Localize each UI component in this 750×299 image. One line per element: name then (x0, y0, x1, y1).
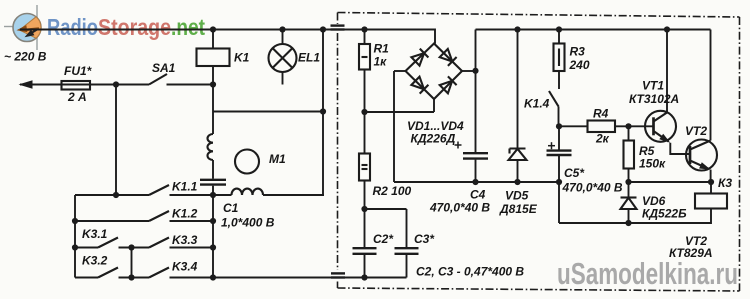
label R2 100 (373, 184, 412, 198)
svg-text:R1: R1 (374, 42, 390, 56)
transistor VT1 (645, 30, 690, 155)
inductor motor winding left (207, 134, 213, 160)
wire left column (74, 195, 76, 278)
wire node down to motor block (212, 85, 214, 112)
capacitor C2 (353, 209, 377, 278)
wire C1 to row (212, 186, 214, 195)
svg-text:K3.1: K3.1 (82, 227, 108, 241)
diode bridge VD1...VD4 (406, 44, 463, 100)
label C2* (373, 232, 394, 246)
svg-text:Radio: Radio (47, 14, 98, 40)
svg-text:K3.2: K3.2 (82, 254, 108, 268)
label KD226D (411, 132, 456, 146)
switch SA1 (149, 74, 167, 85)
svg-text:470,0*40 В: 470,0*40 В (429, 201, 490, 215)
svg-text:R3: R3 (570, 45, 586, 59)
node row3 left (72, 244, 78, 250)
relay coil K3 (695, 182, 727, 209)
feedthrough capacitor bottom (331, 273, 345, 277)
wire bridge plus stub (462, 70, 476, 72)
node VT1 collector top (664, 26, 670, 32)
wire emitter return bus (559, 209, 711, 224)
wire row3 mid (119, 247, 150, 249)
fuse FU1 (62, 81, 98, 90)
label C4 (470, 188, 486, 202)
node VT2 emitter - K3 (708, 179, 714, 185)
node row2 left (72, 218, 78, 224)
label C1 value (221, 216, 275, 230)
label M1 (269, 152, 286, 166)
shield border top (338, 13, 740, 18)
label VT1 type (629, 92, 679, 106)
node C2 bottom (361, 274, 367, 280)
svg-text:VT2: VT2 (685, 124, 707, 138)
svg-text:Д815Е: Д815Е (499, 202, 538, 216)
contact K1.4 (549, 91, 559, 126)
resistor R1 (359, 30, 370, 113)
svg-text:VD5: VD5 (505, 189, 529, 203)
RadioStorage.net logo (4, 5, 41, 50)
svg-text:КТ3102А: КТ3102А (629, 92, 679, 106)
contact K1.2 (149, 211, 169, 221)
label SA1 (152, 61, 176, 75)
node K1.4-C5-R4 (556, 123, 562, 129)
feedthrough capacitor top (331, 26, 345, 30)
wire row1 right (170, 194, 325, 196)
label R5 value (639, 157, 666, 171)
label VT2 (685, 124, 707, 138)
relay coil K1 (197, 49, 230, 67)
wire C2C3 top link (365, 208, 407, 210)
wire row2 (75, 220, 213, 222)
node VD5 bottom (514, 179, 520, 185)
node R5-VD6 (625, 179, 631, 185)
svg-text:K3.3: K3.3 (172, 233, 198, 247)
label R3 (570, 45, 586, 59)
label R3 value (569, 58, 590, 72)
node C4 bottom (472, 179, 478, 185)
label R5 (639, 144, 655, 158)
node motor top right (320, 108, 326, 114)
label K3.2 (82, 254, 108, 268)
label K1 (234, 51, 250, 65)
label VT2 bottom (685, 234, 707, 248)
wire motor left upper (212, 112, 214, 135)
wire row4 left (75, 277, 98, 279)
wire motor block top (213, 111, 323, 113)
resistor R4 (559, 121, 654, 133)
label R1 (374, 42, 390, 56)
node VD6 bottom (625, 220, 631, 226)
label C2 C3 value (416, 265, 524, 279)
label K3.1 (82, 227, 108, 241)
svg-text:C1: C1 (223, 201, 239, 215)
svg-text:470,0*40 В: 470,0*40 В (562, 181, 623, 195)
node SA1 left (113, 81, 119, 87)
resistor R3 (554, 30, 565, 90)
wire fuse to SA1 (97, 84, 149, 86)
label ~220V (4, 50, 47, 64)
label VD6 type (642, 207, 687, 221)
label EL1 (298, 51, 320, 65)
transistor VT2 (686, 30, 717, 183)
wire row3-row4 link (131, 248, 133, 278)
contact K3.4 (149, 268, 169, 278)
capacitor C1 (200, 180, 226, 185)
wire bridge minus column (393, 71, 395, 182)
svg-text:.net: .net (171, 14, 205, 40)
zener diode VD5 (509, 30, 527, 183)
svg-text:C5*: C5* (564, 166, 585, 180)
svg-text:Storage: Storage (98, 14, 171, 40)
capacitor C4 (463, 71, 488, 182)
wire K1 top lead (212, 30, 214, 49)
svg-text:K1.4: K1.4 (524, 97, 550, 111)
node EL1 top (279, 26, 285, 32)
node bridge plus (472, 68, 478, 74)
lamp EL1 (269, 44, 297, 72)
label C3* (414, 232, 435, 246)
contact K3.3 (149, 238, 169, 248)
contact K3.2 (98, 268, 118, 278)
svg-text:1к: 1к (374, 55, 388, 69)
wire row4 / mains bottom (170, 277, 407, 279)
label VD6 (642, 194, 666, 208)
svg-text:VT1: VT1 (642, 79, 664, 93)
label FU1* (64, 64, 93, 78)
node R1 top (361, 26, 367, 32)
wire coil to C1 (212, 160, 214, 179)
label VT2 type (669, 246, 713, 260)
svg-text:КД226Д: КД226Д (411, 132, 456, 146)
svg-text:K1.1: K1.1 (172, 180, 198, 194)
node row3 right (210, 244, 216, 250)
node C5 bus (556, 179, 562, 185)
label R1 value (374, 55, 388, 69)
shield border right (739, 17, 741, 291)
wire K1 bottom lead (212, 66, 214, 85)
node C2 top (361, 206, 367, 212)
node VD5 top (514, 26, 520, 32)
label K3.4 (172, 260, 198, 274)
label R4 (593, 107, 609, 121)
node row1 sa1 (113, 192, 119, 198)
label C1 (223, 201, 239, 215)
label K1.4 (524, 97, 550, 111)
wire R1R2 node to bridge (365, 111, 435, 113)
label VD5 type (499, 202, 538, 216)
svg-text:~ 220 В: ~ 220 В (4, 50, 47, 64)
svg-text:240: 240 (569, 58, 590, 72)
wire row3 right (170, 247, 214, 249)
wire VD6 node to emitter node (629, 181, 712, 183)
label C4 value (429, 201, 490, 215)
wire bridge bottom stub (433, 99, 435, 112)
resistor R2 (359, 112, 370, 209)
label K3 (718, 176, 732, 190)
shield border left (337, 13, 339, 289)
svg-text:C2*: C2* (373, 232, 394, 246)
svg-text:SA1: SA1 (152, 61, 176, 75)
diode VD6 (621, 198, 637, 224)
svg-text:R4: R4 (593, 107, 609, 121)
node row4 c-column (210, 274, 216, 280)
svg-text:FU1*: FU1* (64, 64, 93, 78)
node R3 top (556, 26, 562, 32)
svg-text:2к: 2к (595, 132, 610, 146)
resistor R5 (624, 126, 635, 197)
svg-text:C2, C3 - 0,47*400 В: C2, C3 - 0,47*400 В (416, 265, 524, 279)
svg-text:K3.4: K3.4 (172, 260, 198, 274)
node row4 mid (128, 274, 134, 280)
svg-text:C3*: C3* (414, 232, 435, 246)
svg-text:150к: 150к (639, 157, 666, 171)
node row3 mid (128, 244, 134, 250)
wire plus rail (476, 30, 711, 71)
svg-text:EL1: EL1 (298, 51, 320, 65)
C4 plus sign (455, 142, 462, 149)
node row2 right (210, 218, 216, 224)
label VD5 (505, 189, 529, 203)
mains input arrow ~220V (19, 80, 62, 88)
label K3.3 (172, 233, 198, 247)
node R1-R2 (361, 109, 367, 115)
svg-text:R2 100: R2 100 (373, 184, 412, 198)
label VD1...VD4 (407, 119, 464, 133)
wire SA1 to node (167, 84, 214, 86)
node motor right top (320, 26, 326, 32)
wire row4 mid (119, 277, 150, 279)
label K1.2 (172, 207, 198, 221)
svg-text:2 А: 2 А (67, 90, 87, 104)
wire minus bus (394, 181, 559, 183)
wire row1 left (75, 194, 149, 196)
label 2A (67, 90, 87, 104)
label VT1 (642, 79, 664, 93)
node R4-R5-base (625, 123, 631, 129)
label R4 value (595, 132, 610, 146)
contact K1.1 (149, 185, 169, 195)
shield border bottom (338, 288, 740, 291)
wire row3 left (75, 247, 98, 249)
svg-text:K1: K1 (234, 51, 250, 65)
svg-text:M1: M1 (269, 152, 286, 166)
wire node to K1.1 row (115, 85, 117, 196)
wire motor block right side (322, 30, 324, 196)
svg-text:uSamodelkina.ru: uSamodelkina.ru (557, 256, 738, 291)
label C5* (564, 166, 585, 180)
wire EL1 bottom lead (282, 72, 284, 85)
svg-text:1,0*400 В: 1,0*400 В (221, 216, 275, 230)
node K1 top (210, 26, 216, 32)
wire EL1 top lead (282, 30, 284, 45)
wire bridge minus stub (394, 70, 406, 72)
label C5 value (562, 181, 623, 195)
svg-text:КД522Б: КД522Б (642, 207, 687, 221)
svg-text:K1.2: K1.2 (172, 207, 198, 221)
C5 plus sign (548, 142, 555, 149)
svg-text:К3: К3 (718, 176, 732, 190)
watermark uSamodelkina.ru (557, 256, 738, 291)
capacitor C5 (547, 126, 572, 223)
label K1.1 (172, 180, 198, 194)
node mains junction (210, 81, 216, 87)
motor M1 (235, 150, 259, 174)
wire mains top (L) (20, 30, 435, 44)
inductor motor winding bottom (232, 189, 264, 195)
capacitor C3 (395, 209, 419, 278)
svg-text:C4: C4 (470, 188, 486, 202)
wire C1 column lower (212, 195, 214, 278)
node row1 c1 (210, 192, 216, 198)
header text RadioStorage.net (47, 14, 205, 40)
contact K3.1 (98, 238, 118, 248)
